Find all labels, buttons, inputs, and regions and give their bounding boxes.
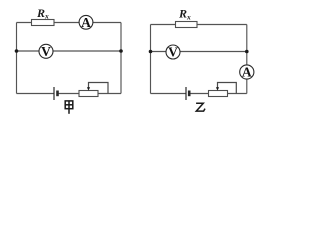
rheostat slider arrowhead (right) (216, 87, 219, 90)
battery (right): long plate (185, 87, 187, 100)
rheostat slider wire (right) (218, 83, 237, 94)
svg-text:Rx: Rx (178, 7, 191, 22)
battery (left): short thick plate (56, 91, 59, 97)
svg-text:A: A (81, 15, 91, 30)
wire: bottom left of battery (17, 93, 55, 95)
rheostat slider wire (left) (89, 83, 109, 94)
label 乙 (196, 103, 205, 111)
node: right V junction (119, 49, 123, 53)
node: left V junction (149, 50, 153, 54)
voltmeter V1 (left) (39, 44, 53, 58)
wire: top (17, 22, 122, 24)
svg-text:A: A (242, 65, 252, 80)
rheostat slider arrowhead (left) (87, 87, 90, 90)
wire: voltmeter branch (151, 51, 247, 53)
battery (right): short thick plate (188, 91, 191, 97)
node: right V junction (245, 50, 249, 54)
resistor R_x (left) (32, 20, 55, 26)
svg-text:V: V (41, 44, 51, 59)
wire: bottom right of battery (58, 93, 122, 95)
wire: top (151, 24, 247, 26)
battery (left): long plate (53, 87, 55, 100)
rheostat box (right) (209, 91, 228, 97)
wire: right rail (246, 25, 248, 94)
resistor R_x (right) (176, 22, 198, 28)
svg-text:Rx: Rx (36, 6, 49, 21)
voltmeter V2 (right) (166, 45, 180, 59)
svg-text:V: V (168, 45, 178, 60)
ammeter A2 (right rail) (240, 65, 254, 79)
label 甲 (65, 101, 73, 114)
wire: right rail (120, 23, 122, 94)
wire: bottom right of battery (190, 93, 247, 95)
rheostat box (left) (79, 91, 98, 97)
ammeter A1 (left, top wire) (79, 15, 93, 29)
wire: bottom left of battery (151, 93, 187, 95)
node: left V junction (15, 49, 19, 53)
wire: left rail (150, 25, 152, 94)
wire: voltmeter branch (17, 50, 122, 52)
wire: left rail (16, 23, 18, 94)
